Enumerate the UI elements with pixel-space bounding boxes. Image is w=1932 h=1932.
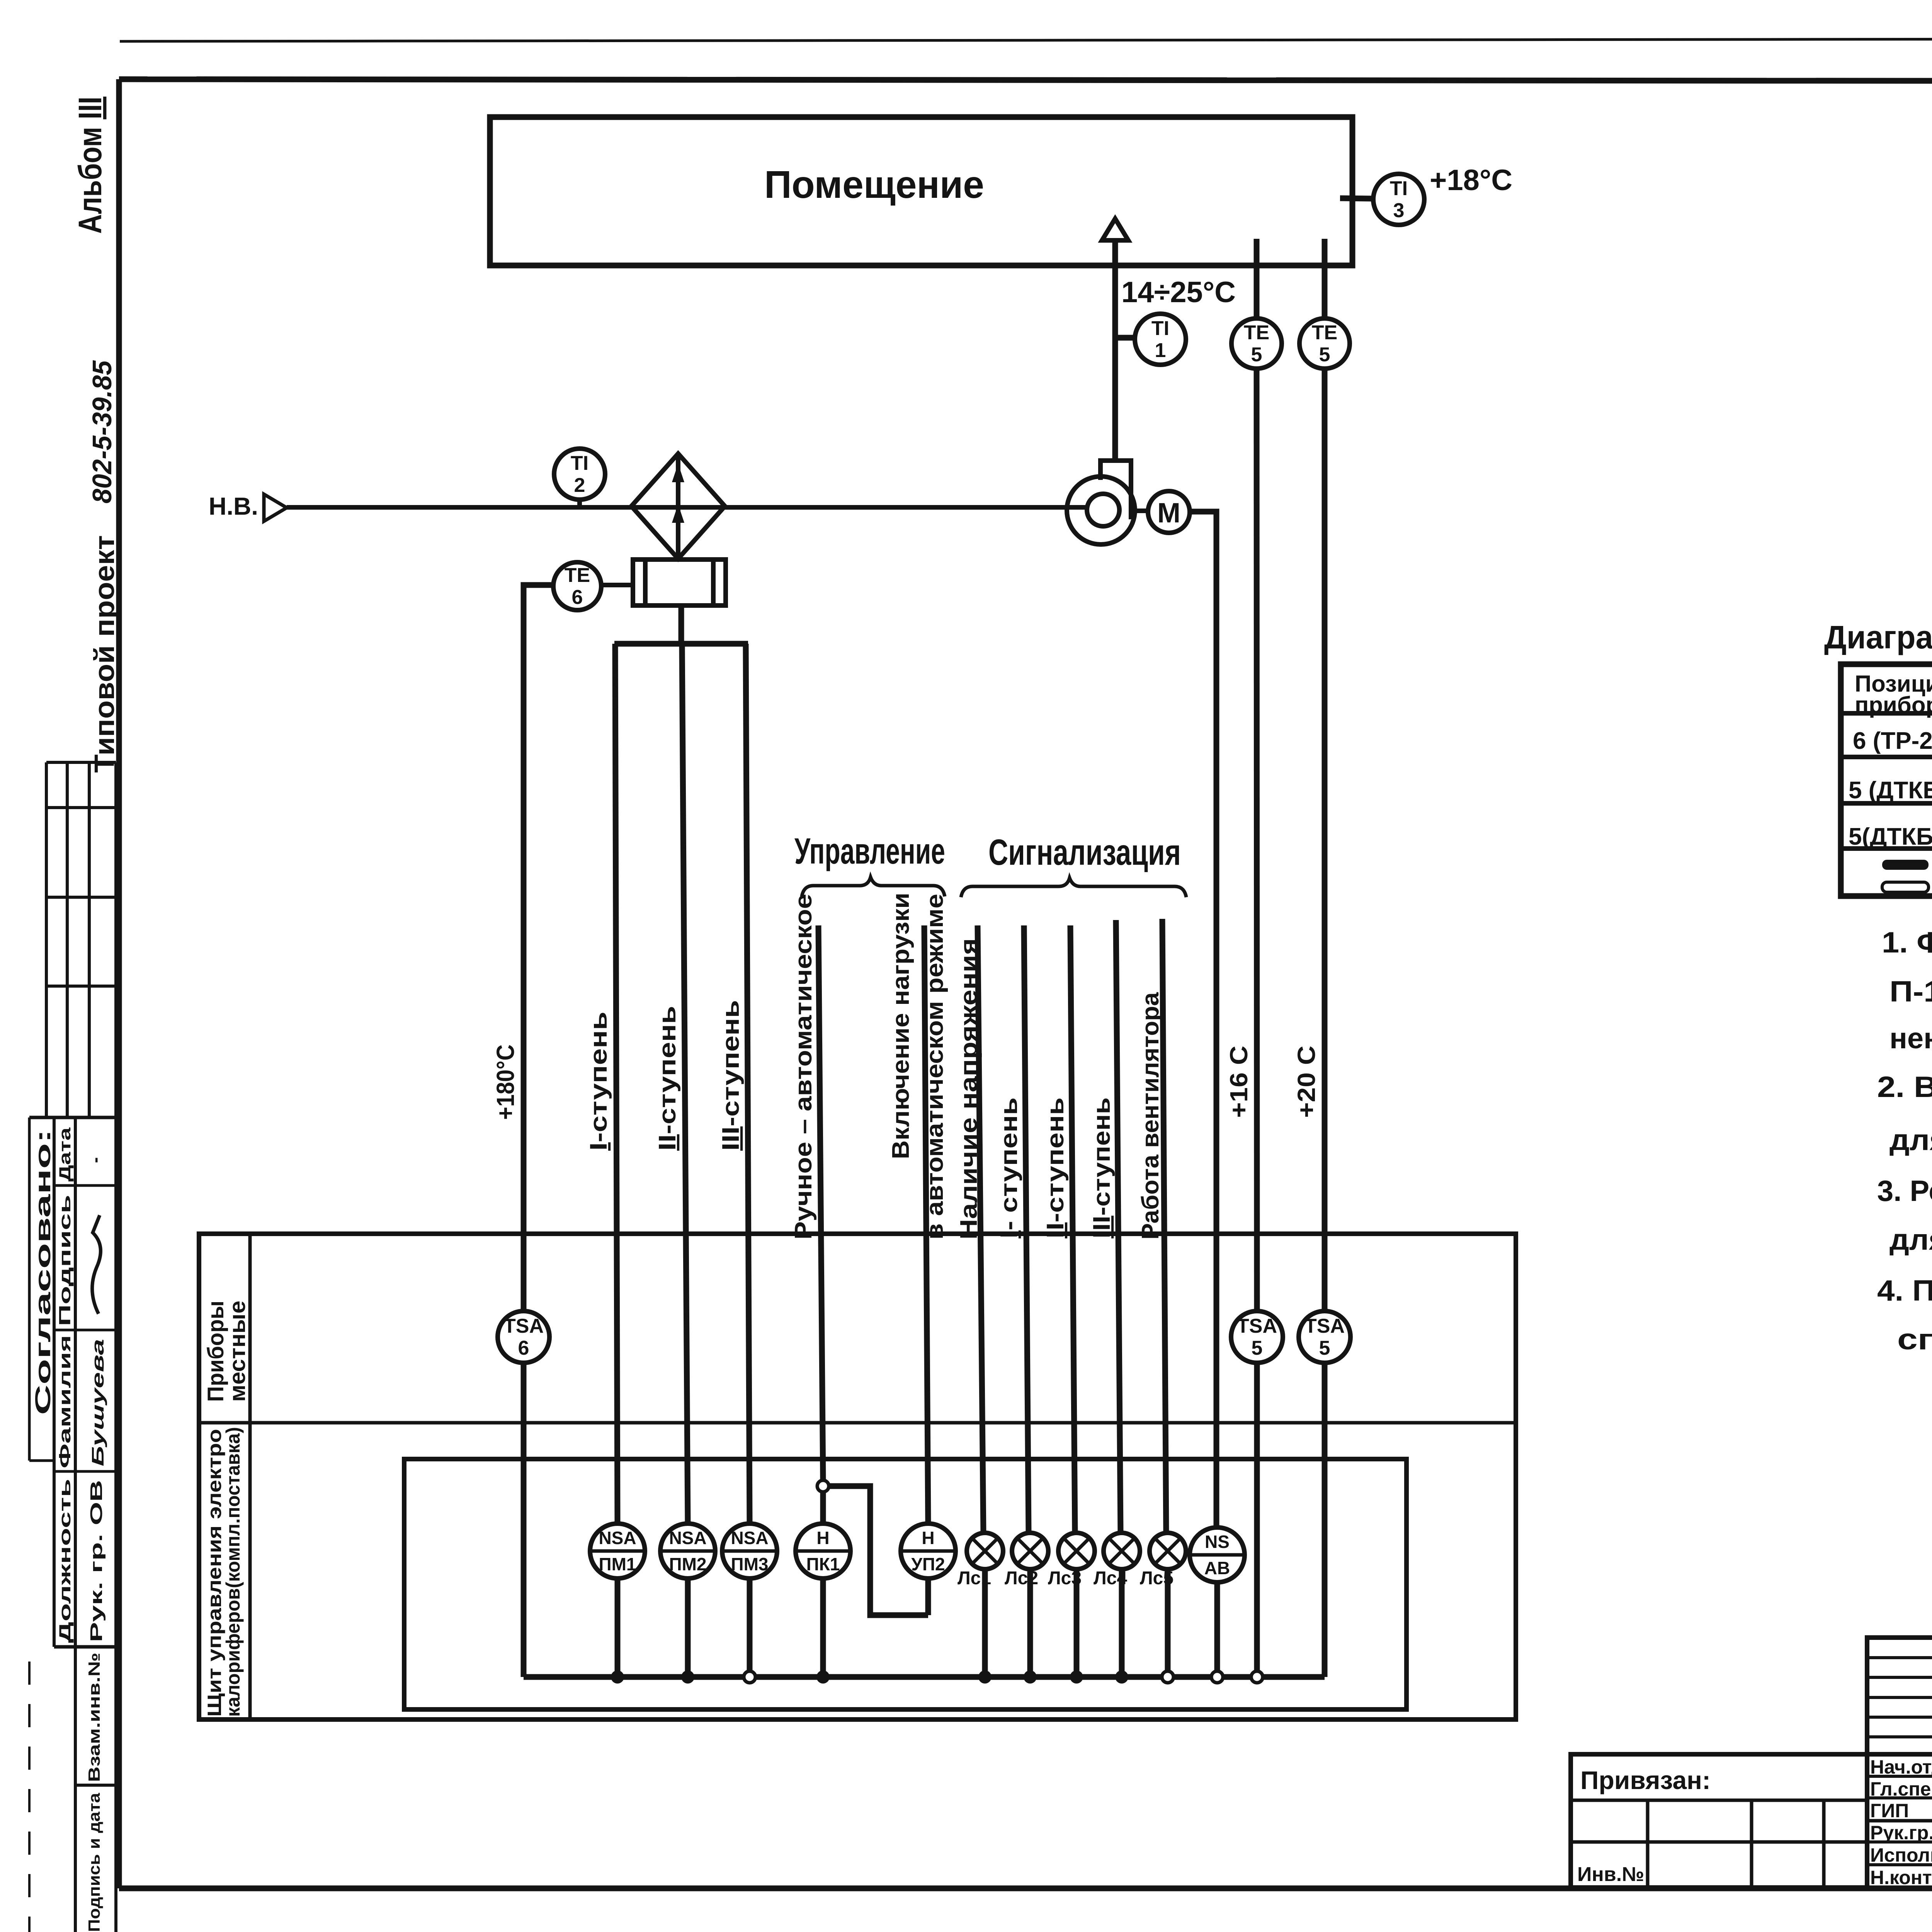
instrument TSA5 right xyxy=(1299,1311,1350,1363)
svg-text:1: 1 xyxy=(1155,339,1166,362)
svg-text:Н.В.: Н.В. xyxy=(209,492,258,520)
wire I-ступень signal xyxy=(1024,925,1029,1533)
svg-text:нением индекса в обозначени: нением индекса в обозначении „1“ на „2“,… xyxy=(1889,1022,1932,1055)
svg-text:Нач.отд.: Нач.отд. xyxy=(1870,1756,1932,1778)
instrument TSA6 xyxy=(498,1311,549,1363)
svg-text:Фамилия: Фамилия xyxy=(56,1335,74,1468)
junction dot Лс3 xyxy=(1070,1670,1083,1684)
svg-text:III-ступень: III-ступень xyxy=(718,1000,744,1151)
lamp Лс3 xyxy=(1048,1533,1095,1588)
svg-text:TI: TI xyxy=(571,452,588,474)
signature names column 1 xyxy=(1870,1756,1932,1888)
svg-text:1. Функциональная схема выпо: 1. Функциональная схема выполнена для си… xyxy=(1882,926,1932,959)
junction open ПМ3 xyxy=(744,1671,755,1683)
room box Помещение xyxy=(490,117,1352,265)
lamp Лс1 xyxy=(957,1533,1003,1588)
svg-text:АВ: АВ xyxy=(1204,1558,1230,1578)
svg-text:+180°C: +180°C xyxy=(492,1044,519,1120)
svg-text:TSA: TSA xyxy=(1304,1315,1345,1337)
wire УП2 below circle xyxy=(925,1578,931,1615)
svg-text:TSA: TSA xyxy=(1237,1315,1277,1337)
wire +20 TE5 to TSA5 xyxy=(1322,369,1328,1311)
svg-text:5: 5 xyxy=(1319,344,1330,366)
svg-text:+20 С: +20 С xyxy=(1293,1046,1320,1118)
svg-text:TE: TE xyxy=(565,564,590,587)
inner box комплектное устройство xyxy=(404,1459,1406,1709)
junction open +16 xyxy=(1251,1671,1263,1683)
wire motor to panel xyxy=(1190,512,1216,1527)
instrument TE5 left xyxy=(1231,318,1282,369)
svg-text:I- ступень: I- ступень xyxy=(996,1097,1022,1238)
svg-text:6: 6 xyxy=(572,586,583,609)
svg-text:3. Резервная буква „N“ по О: 3. Резервная буква „N“ по ОСТ 36-27-77 п… xyxy=(1877,1175,1932,1207)
motor M xyxy=(1135,491,1190,533)
svg-text:Помещение: Помещение xyxy=(764,163,984,206)
svg-text:Лс2: Лс2 xyxy=(1005,1568,1038,1588)
привязан table xyxy=(1571,1754,1867,1888)
svg-text:Инв.№: Инв.№ xyxy=(1577,1863,1644,1886)
svg-text:П-1, для систем П-2,П-3 схем: П-1, для систем П-2,П-3 схема аналогична… xyxy=(1889,975,1932,1008)
svg-text:TI: TI xyxy=(1151,317,1169,340)
svg-text:ПМ3: ПМ3 xyxy=(731,1554,769,1574)
svg-text:ПМ1: ПМ1 xyxy=(599,1554,636,1574)
svg-text:II-ступень: II-ступень xyxy=(654,1006,681,1151)
svg-text:4. Позиции приборов указан: 4. Позиции приборов указаны согласно xyxy=(1877,1274,1932,1307)
svg-text:Диаграмма замыкания контакт: Диаграмма замыкания контактов ТР-200, ДТ… xyxy=(1824,619,1932,655)
svg-text:Работа вентилятора: Работа вентилятора xyxy=(1137,992,1164,1240)
wire Включение нагрузки xyxy=(924,925,928,1524)
left margin: 802-5-39.85 vertical text xyxy=(87,360,117,503)
svg-text:ГИП: ГИП xyxy=(1870,1800,1909,1821)
panel outer box Щит управления xyxy=(199,1234,1516,1719)
wire Наличие напряжения xyxy=(978,925,983,1533)
table header texts xyxy=(1855,663,1932,718)
wire TE5 left (+16) upper xyxy=(1254,239,1260,319)
button Н УП2 xyxy=(901,1524,956,1578)
left margin: Согласовано block xyxy=(29,1117,116,1932)
svg-text:местные: местные xyxy=(225,1301,250,1402)
svg-text:+18°C: +18°C xyxy=(1430,164,1512,197)
lamp Лс5 xyxy=(1140,1533,1186,1588)
instrument TE5 right xyxy=(1299,318,1350,369)
selector NSA ПМ3 xyxy=(722,1524,777,1578)
left margin dashed line xyxy=(28,1662,31,1932)
wire TSA6 to bus xyxy=(521,1363,527,1677)
svg-text:прибора: прибора xyxy=(1855,692,1932,718)
svg-text:2. В проекте применено комп: 2. В проекте применено комплектное устро… xyxy=(1877,1071,1932,1104)
svg-text:Гл.спец.: Гл.спец. xyxy=(1870,1778,1932,1800)
fan volute xyxy=(1067,461,1135,544)
svg-text:Взам.инв.№: Взам.инв.№ xyxy=(85,1653,103,1782)
svg-text:Бушуева: Бушуева xyxy=(88,1339,107,1466)
svg-text:Согласовано:: Согласовано: xyxy=(31,1129,55,1415)
svg-text:III-ступень: III-ступень xyxy=(1088,1097,1115,1238)
switch NS АВ xyxy=(1190,1527,1245,1582)
svg-text:Н: Н xyxy=(922,1528,934,1548)
junction open Лс5 xyxy=(1162,1671,1173,1683)
svg-text:Управление: Управление xyxy=(794,831,945,872)
common bus line xyxy=(524,1674,1325,1680)
junction dot ПК1 xyxy=(816,1670,830,1684)
signature table rows xyxy=(1867,1754,1932,1865)
intake triangle xyxy=(264,494,287,521)
svg-text:TSA: TSA xyxy=(503,1315,544,1337)
lamp Лс4 xyxy=(1094,1533,1140,1588)
wire III-ступень xyxy=(746,644,750,1524)
svg-text:NSA: NSA xyxy=(731,1528,768,1548)
left margin empty grid table xyxy=(46,762,116,1117)
svg-text:ПК1: ПК1 xyxy=(806,1554,840,1574)
svg-text:3: 3 xyxy=(1393,199,1405,222)
svg-text:TE: TE xyxy=(1244,321,1269,344)
exhaust vent triangle xyxy=(1102,219,1128,240)
instrument TE6 xyxy=(553,562,631,610)
svg-text:калориферов(компл.поставка): калориферов(компл.поставка) xyxy=(222,1427,244,1717)
svg-text:Должность: Должность xyxy=(56,1479,74,1643)
svg-text:5: 5 xyxy=(1252,1337,1263,1359)
wire +20 TSA5 to bus corner xyxy=(1322,1363,1328,1677)
wire jog node to ПК1 xyxy=(820,1492,826,1524)
svg-text:Альбом III: Альбом III xyxy=(72,97,108,234)
wire TSA5 left to bus xyxy=(1254,1363,1260,1677)
wire III-ступень signal xyxy=(1116,920,1121,1533)
svg-text:5 (ДТКБ-53т): 5 (ДТКБ-53т) xyxy=(1849,777,1932,804)
svg-text:Н: Н xyxy=(816,1528,829,1548)
legend closed contact xyxy=(1882,852,1932,878)
svg-text:M: M xyxy=(1157,498,1180,529)
svg-text:Исполн.: Исполн. xyxy=(1870,1844,1932,1866)
svg-text:Типовой проект: Типовой проект xyxy=(89,535,120,773)
wire II-ступень signal xyxy=(1070,925,1075,1533)
svg-text:Н.контр: Н.контр xyxy=(1870,1867,1932,1888)
svg-text:6: 6 xyxy=(518,1337,529,1359)
svg-text:TE: TE xyxy=(1312,321,1337,344)
title block upper grid xyxy=(1867,1638,1932,1888)
left margin: Типовой проект vertical text xyxy=(89,535,120,773)
instrument TI1 xyxy=(1115,314,1186,365)
brace Управление xyxy=(802,877,945,896)
duct wire room to fan xyxy=(1112,240,1118,461)
wire +16 TE5 to TSA5 xyxy=(1257,369,1257,1311)
wire I-ступень xyxy=(615,644,617,1524)
svg-text:-: - xyxy=(85,1157,105,1163)
wire TE5 right (+20) upper xyxy=(1322,239,1328,319)
svg-text:+16 С: +16 С xyxy=(1225,1046,1253,1118)
air filter diamond xyxy=(631,454,725,559)
svg-text:УП2: УП2 xyxy=(911,1554,945,1574)
svg-text:802-5-39.85: 802-5-39.85 xyxy=(87,360,117,503)
wire II-ступень xyxy=(682,644,688,1524)
svg-text:2: 2 xyxy=(574,474,585,497)
contact diagram table frame xyxy=(1841,664,1932,896)
svg-text:I-ступень: I-ступень xyxy=(585,1012,612,1151)
svg-text:Сигнализация: Сигнализация xyxy=(988,832,1181,873)
heater stage T-bar xyxy=(614,605,748,644)
svg-text:спецификации оборудования: спецификации оборудования АОВ.С01. xyxy=(1897,1323,1932,1356)
electric heater xyxy=(633,559,726,605)
svg-text:Рук. гр. ОВ: Рук. гр. ОВ xyxy=(87,1480,106,1642)
junction dot Лс1 xyxy=(978,1670,992,1684)
svg-text:II-ступень: II-ступень xyxy=(1042,1097,1069,1238)
wire Работа вентилятора xyxy=(1162,919,1166,1533)
svg-text:NS: NS xyxy=(1205,1532,1230,1552)
selector NSA ПМ2 xyxy=(660,1524,715,1578)
junction dot ПМ2 xyxy=(681,1670,694,1684)
left margin: Альбом III vertical text xyxy=(72,97,108,234)
svg-text:для обозначения магнитного: для обозначения магнитного пускателя. xyxy=(1889,1223,1932,1256)
svg-text:Ручное – автоматическое: Ручное – автоматическое xyxy=(790,894,817,1240)
svg-text:Дата: Дата xyxy=(56,1127,74,1182)
instrument TSA5 left xyxy=(1231,1311,1283,1363)
svg-text:Подпись и дата: Подпись и дата xyxy=(85,1793,103,1932)
button Н ПК1 xyxy=(796,1524,850,1578)
svg-text:14÷25°C: 14÷25°C xyxy=(1121,276,1236,309)
node jog ПК1 to УП2 xyxy=(817,1480,928,1615)
wires circles to bus xyxy=(617,1569,1217,1677)
instrument TI2 xyxy=(554,449,605,507)
svg-text:для управления электрокалори: для управления электрокалориферами. xyxy=(1889,1124,1932,1156)
svg-text:5: 5 xyxy=(1251,344,1262,366)
svg-text:Включение нагрузки: Включение нагрузки xyxy=(888,893,914,1159)
svg-text:NSA: NSA xyxy=(599,1528,636,1548)
wire Ручное-автоматическое xyxy=(818,925,823,1480)
brace Сигнализация xyxy=(961,878,1186,897)
junction dot Лс4 xyxy=(1115,1670,1128,1684)
instrument TI3 xyxy=(1340,174,1424,225)
svg-text:NSA: NSA xyxy=(669,1528,706,1548)
legend open contact xyxy=(1882,875,1932,901)
junction open АВ xyxy=(1211,1671,1223,1683)
panel label Приборы местные xyxy=(203,1301,250,1402)
panel label Щит управления электрокалориферами xyxy=(204,1427,244,1717)
svg-text:TI: TI xyxy=(1390,177,1408,200)
left margin: Подпись и дата cell xyxy=(75,1793,116,1932)
junction dot Лс2 xyxy=(1024,1670,1037,1684)
svg-text:5: 5 xyxy=(1319,1337,1330,1359)
svg-text:Привязан:: Привязан: xyxy=(1580,1766,1711,1794)
junction dot ПМ1 xyxy=(611,1670,624,1684)
svg-text:Рук.гр.: Рук.гр. xyxy=(1870,1822,1932,1844)
intake duct line xyxy=(287,505,1087,510)
svg-text:Подпись: Подпись xyxy=(56,1195,74,1326)
svg-text:ПМ2: ПМ2 xyxy=(669,1554,707,1574)
wire TE6 to TSA6 (+180) xyxy=(524,585,553,1311)
svg-text:6 (ТР-200): 6 (ТР-200) xyxy=(1853,728,1932,754)
sheet top thin line xyxy=(120,38,1932,41)
left margin: Взам.инв.N cell xyxy=(75,1653,116,1785)
selector NSA ПМ1 xyxy=(590,1524,645,1578)
svg-text:5(ДТКБ-53т): 5(ДТКБ-53т) xyxy=(1849,823,1932,850)
lamp Лс2 xyxy=(1005,1533,1048,1588)
